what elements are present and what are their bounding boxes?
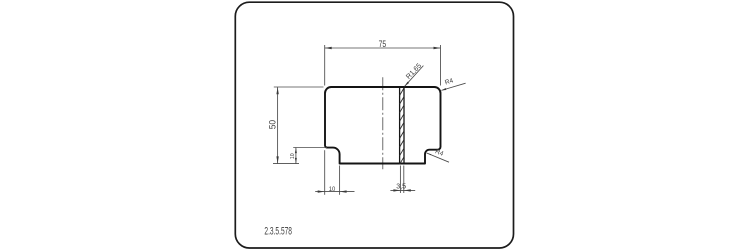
leader R4 top right: arrowhead [441, 88, 446, 90]
leader R4 top right: leader line [441, 83, 465, 90]
dimension 10 horizontal: arrowheads [318, 190, 325, 192]
dimension 50: dimension line [277, 87, 279, 163]
dimension 75: arrowheads [325, 47, 332, 49]
leader R4 bottom right: leader line [427, 153, 449, 162]
slot hatching [400, 88, 404, 164]
card frame [235, 2, 513, 248]
dimension 75: extension lines [325, 45, 441, 86]
slot left edge [399, 86, 401, 164]
dimension 10 horizontal: dimension line with tails [315, 191, 354, 193]
svg-text:75: 75 [379, 39, 387, 50]
leader R1,65: arrowhead [405, 82, 409, 87]
dimension 50: arrowheads [276, 87, 278, 94]
dimension 10 horizontal: extension lines [315, 150, 354, 195]
leader R4 bottom right: arrowhead [427, 153, 432, 155]
dimension 75: dimension line [325, 47, 441, 49]
svg-text:50: 50 [266, 120, 277, 129]
part outline [325, 87, 441, 164]
svg-text:10: 10 [329, 186, 336, 193]
svg-text:3,5: 3,5 [396, 182, 406, 191]
dimension 3,5: extension lines [390, 166, 415, 194]
dimension 3,5: arrowheads [393, 189, 400, 191]
centerline (vertical dash-dot axis) [382, 77, 384, 169]
dimension 10 vertical: dimension line [295, 148, 297, 164]
dimension 50: extension lines [273, 87, 324, 164]
svg-text:10: 10 [290, 153, 296, 159]
dimension 3,5: dimension line with tails [390, 189, 415, 191]
dimension 10 vertical: extension line for step ledge [293, 148, 327, 164]
slot right edge [403, 86, 405, 164]
svg-text:2.3.5.578: 2.3.5.578 [264, 225, 292, 237]
leader R1,65: leader line [405, 66, 424, 87]
dimension 10 vertical: arrowheads [295, 148, 297, 154]
